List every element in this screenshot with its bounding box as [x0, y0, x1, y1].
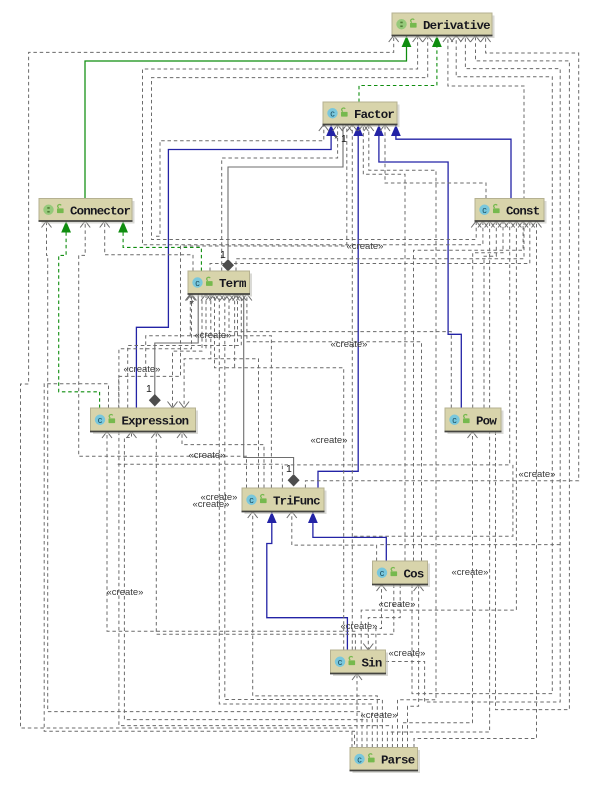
svg-text:«create»: «create» — [519, 469, 556, 480]
svg-text:c: c — [249, 495, 254, 505]
svg-text:Connector: Connector — [70, 204, 130, 218]
svg-text:«create»: «create» — [347, 241, 384, 252]
svg-text:Factor: Factor — [354, 108, 394, 122]
svg-text:Term: Term — [219, 277, 246, 291]
svg-text:TriFunc: TriFunc — [273, 494, 320, 508]
svg-text:«create»: «create» — [331, 339, 368, 350]
svg-text:«create»: «create» — [193, 499, 230, 510]
svg-text:* 1: * 1 — [334, 133, 347, 145]
svg-text:«create»: «create» — [124, 364, 161, 375]
svg-text:«create»: «create» — [389, 648, 426, 659]
svg-text:c: c — [452, 415, 457, 425]
svg-text:c: c — [482, 205, 487, 215]
svg-text:«create»: «create» — [107, 587, 144, 598]
svg-text:Cos: Cos — [404, 567, 424, 581]
svg-text:«create»: «create» — [361, 710, 398, 721]
svg-text:c: c — [357, 754, 362, 764]
svg-text:«create»: «create» — [379, 599, 416, 610]
svg-text:Parse: Parse — [381, 754, 415, 768]
svg-text:c: c — [330, 109, 335, 119]
svg-text:c: c — [98, 415, 103, 425]
svg-text:c: c — [380, 568, 385, 578]
svg-text:Sin: Sin — [362, 656, 382, 670]
svg-text:«create»: «create» — [341, 621, 378, 632]
svg-text:c: c — [338, 657, 343, 667]
svg-text:«create»: «create» — [311, 435, 348, 446]
svg-text:Expression: Expression — [122, 414, 189, 428]
svg-text:Const: Const — [506, 204, 540, 218]
svg-text:«create»: «create» — [195, 330, 232, 341]
svg-text:c: c — [195, 278, 200, 288]
svg-text:«create»: «create» — [452, 567, 489, 578]
svg-text:1: 1 — [220, 249, 226, 261]
svg-text:1: 1 — [286, 463, 292, 475]
svg-text:1: 1 — [146, 383, 152, 395]
svg-text:*: * — [190, 298, 194, 310]
svg-text:Pow: Pow — [476, 414, 497, 428]
svg-text:Derivative: Derivative — [423, 19, 490, 33]
svg-text:«create»: «create» — [189, 450, 226, 461]
